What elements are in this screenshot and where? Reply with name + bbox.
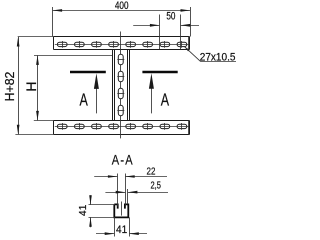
svg-text:22: 22 xyxy=(147,166,156,177)
svg-text:50: 50 xyxy=(166,10,175,22)
svg-text:41: 41 xyxy=(116,225,127,236)
svg-text:H+82: H+82 xyxy=(3,72,17,102)
svg-text:A: A xyxy=(161,91,170,111)
svg-text:H: H xyxy=(23,81,39,91)
svg-text:2,5: 2,5 xyxy=(151,179,161,190)
svg-text:41: 41 xyxy=(78,204,89,216)
svg-text:A: A xyxy=(80,91,89,111)
svg-text:400: 400 xyxy=(115,0,129,12)
svg-text:A-A: A-A xyxy=(112,152,134,167)
svg-text:27x10.5: 27x10.5 xyxy=(200,52,236,63)
